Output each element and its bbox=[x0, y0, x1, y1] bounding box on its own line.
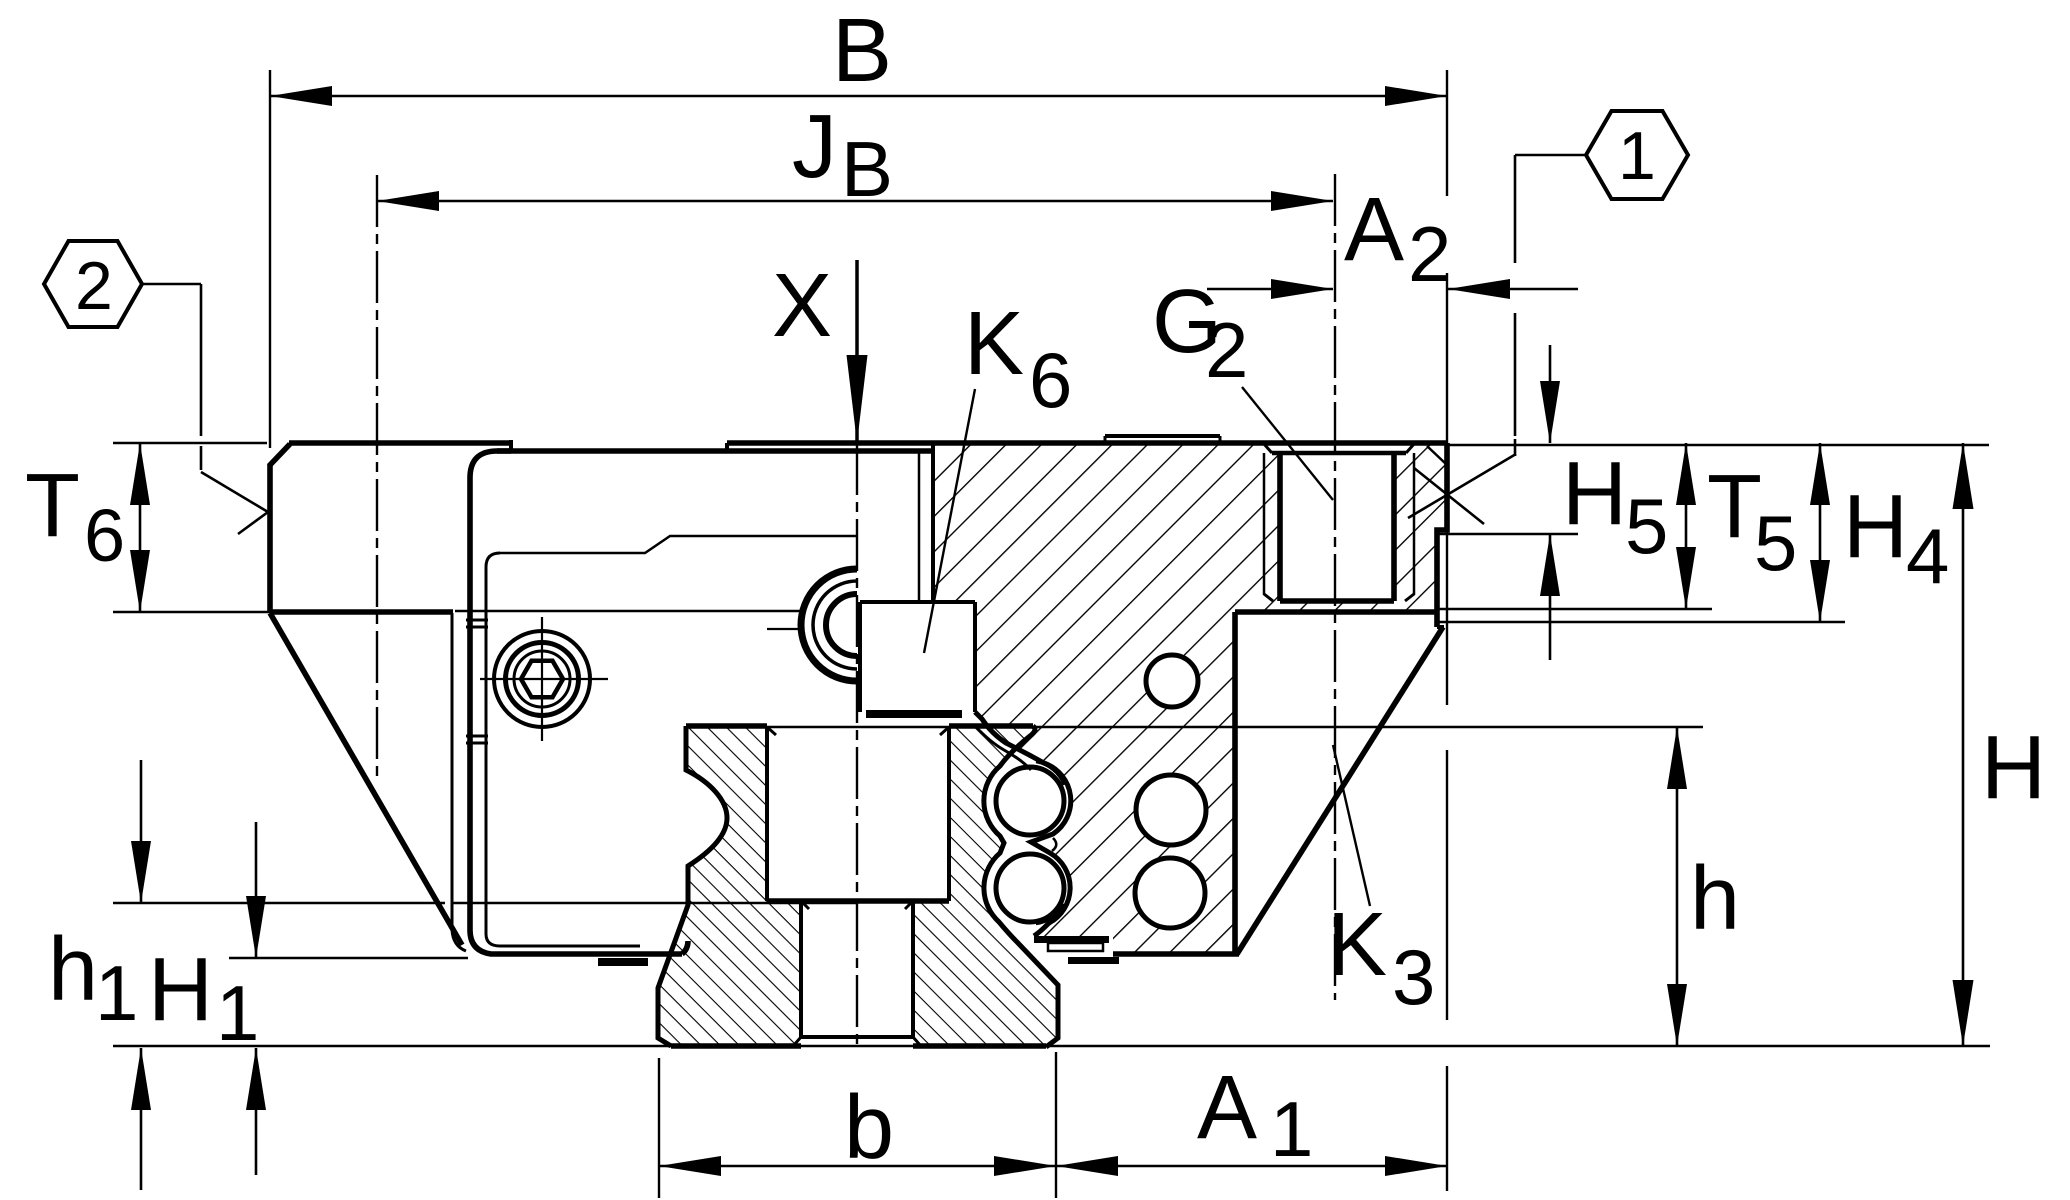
dimension B bbox=[270, 95, 1447, 98]
svg-text:K: K bbox=[964, 294, 1024, 394]
carriage left corner chamfer bbox=[269, 444, 290, 466]
svg-text:X: X bbox=[772, 256, 832, 356]
rail bottom bbox=[671, 1043, 801, 1049]
retainer strip tab bbox=[1105, 434, 1220, 438]
carriage top surface bbox=[289, 440, 511, 446]
dimension H1 bbox=[255, 822, 258, 958]
dimension b bbox=[659, 1165, 1056, 1168]
end plate bottom seal lip bbox=[598, 958, 648, 966]
end plate inner edge bbox=[486, 553, 640, 946]
rail top edges bbox=[686, 723, 767, 729]
svg-text:2: 2 bbox=[1408, 210, 1451, 298]
dimension h1 bbox=[140, 760, 143, 903]
svg-text:1: 1 bbox=[95, 949, 138, 1037]
dimension H bbox=[1962, 443, 1965, 1046]
center line left hole bbox=[376, 175, 378, 780]
callout hexagon 1 bbox=[1586, 111, 1688, 199]
svg-text:H: H bbox=[1981, 718, 2046, 818]
dimension A1 bbox=[1056, 1165, 1447, 1168]
lube nipple arcs bbox=[801, 569, 857, 681]
svg-text:3: 3 bbox=[1392, 933, 1435, 1021]
socket head screw bbox=[494, 631, 590, 727]
center line X / rail bbox=[856, 443, 858, 1046]
end plate top edge bbox=[497, 448, 933, 454]
carriage bottom right bbox=[1113, 951, 1239, 957]
svg-text:H: H bbox=[148, 940, 213, 1040]
svg-text:K: K bbox=[1327, 895, 1387, 995]
svg-text:B: B bbox=[841, 125, 893, 213]
dimension T5 bbox=[1685, 443, 1688, 609]
section boundary at chamfer bbox=[1235, 609, 1437, 615]
svg-text:T: T bbox=[25, 456, 80, 556]
rail right section (hatched) bbox=[913, 726, 1058, 1047]
dimension H5 bbox=[1549, 345, 1552, 443]
top slot bbox=[918, 452, 921, 602]
svg-text:2: 2 bbox=[75, 248, 113, 324]
dimension H4 bbox=[1819, 443, 1822, 622]
svg-text:H: H bbox=[1843, 477, 1908, 577]
section arrow X bbox=[855, 260, 859, 360]
dimension T6 bbox=[139, 443, 142, 612]
dimension JB bbox=[377, 200, 1333, 203]
svg-text:4: 4 bbox=[1906, 512, 1949, 600]
carriage right edge bbox=[1437, 443, 1447, 627]
tapped hole G2 detail bbox=[1277, 453, 1283, 601]
body edge behind end plate bbox=[452, 613, 466, 951]
wing bottom edge bbox=[270, 609, 453, 615]
lube port block K6 bbox=[860, 600, 975, 604]
top right corner chamfer bbox=[1427, 446, 1446, 464]
svg-text:b: b bbox=[844, 1078, 894, 1178]
ball 1 bbox=[996, 767, 1064, 835]
plate split ticks bbox=[466, 619, 488, 622]
svg-text:5: 5 bbox=[1625, 482, 1668, 570]
svg-text:2: 2 bbox=[1205, 306, 1248, 394]
ball return bores (white) bbox=[1146, 655, 1198, 707]
extension lines bbox=[113, 442, 267, 444]
rail bolt counterbore bbox=[765, 726, 769, 901]
hole chamfers bbox=[794, 1037, 801, 1045]
rail left section (hatched) bbox=[658, 726, 801, 1046]
rail left profile bbox=[658, 726, 727, 1046]
retainer lips bbox=[975, 726, 1031, 770]
svg-text:6: 6 bbox=[1029, 336, 1072, 424]
svg-text:6: 6 bbox=[84, 494, 125, 577]
carriage groove edge bbox=[975, 712, 1071, 936]
svg-text:A: A bbox=[1344, 180, 1404, 280]
chamfer mark top left bbox=[201, 472, 268, 534]
plate seam line bbox=[453, 902, 857, 904]
dimension h bbox=[1676, 727, 1679, 1046]
tapped hole G2 (white) bbox=[1281, 452, 1393, 600]
carriage left edge bbox=[267, 464, 273, 613]
svg-text:A: A bbox=[1197, 1058, 1257, 1158]
ball 2 bbox=[996, 854, 1064, 922]
svg-text:H: H bbox=[1562, 444, 1627, 544]
center line G2 bbox=[1334, 174, 1336, 1000]
right chamfer face bbox=[1237, 627, 1443, 954]
svg-text:J: J bbox=[792, 97, 837, 197]
rail right profile bbox=[984, 726, 1058, 1047]
carriage body section (hatched) bbox=[933, 443, 1447, 956]
callout hexagon 2 bbox=[44, 241, 142, 327]
plate split line bbox=[455, 610, 801, 612]
bottom seal block right bbox=[1034, 936, 1109, 943]
svg-text:B: B bbox=[832, 1, 892, 101]
svg-text:h: h bbox=[1690, 849, 1740, 949]
seal curl at rail bbox=[682, 941, 688, 954]
svg-text:h: h bbox=[48, 920, 98, 1020]
end plate outline bbox=[470, 451, 682, 954]
chamfer mark top right bbox=[1408, 454, 1516, 518]
svg-text:5: 5 bbox=[1754, 499, 1797, 587]
svg-text:1: 1 bbox=[216, 969, 259, 1057]
svg-text:1: 1 bbox=[1270, 1085, 1313, 1173]
svg-text:1: 1 bbox=[1618, 118, 1656, 194]
lower-left chamfer face bbox=[270, 613, 462, 945]
dimension A2 bbox=[1207, 288, 1333, 291]
